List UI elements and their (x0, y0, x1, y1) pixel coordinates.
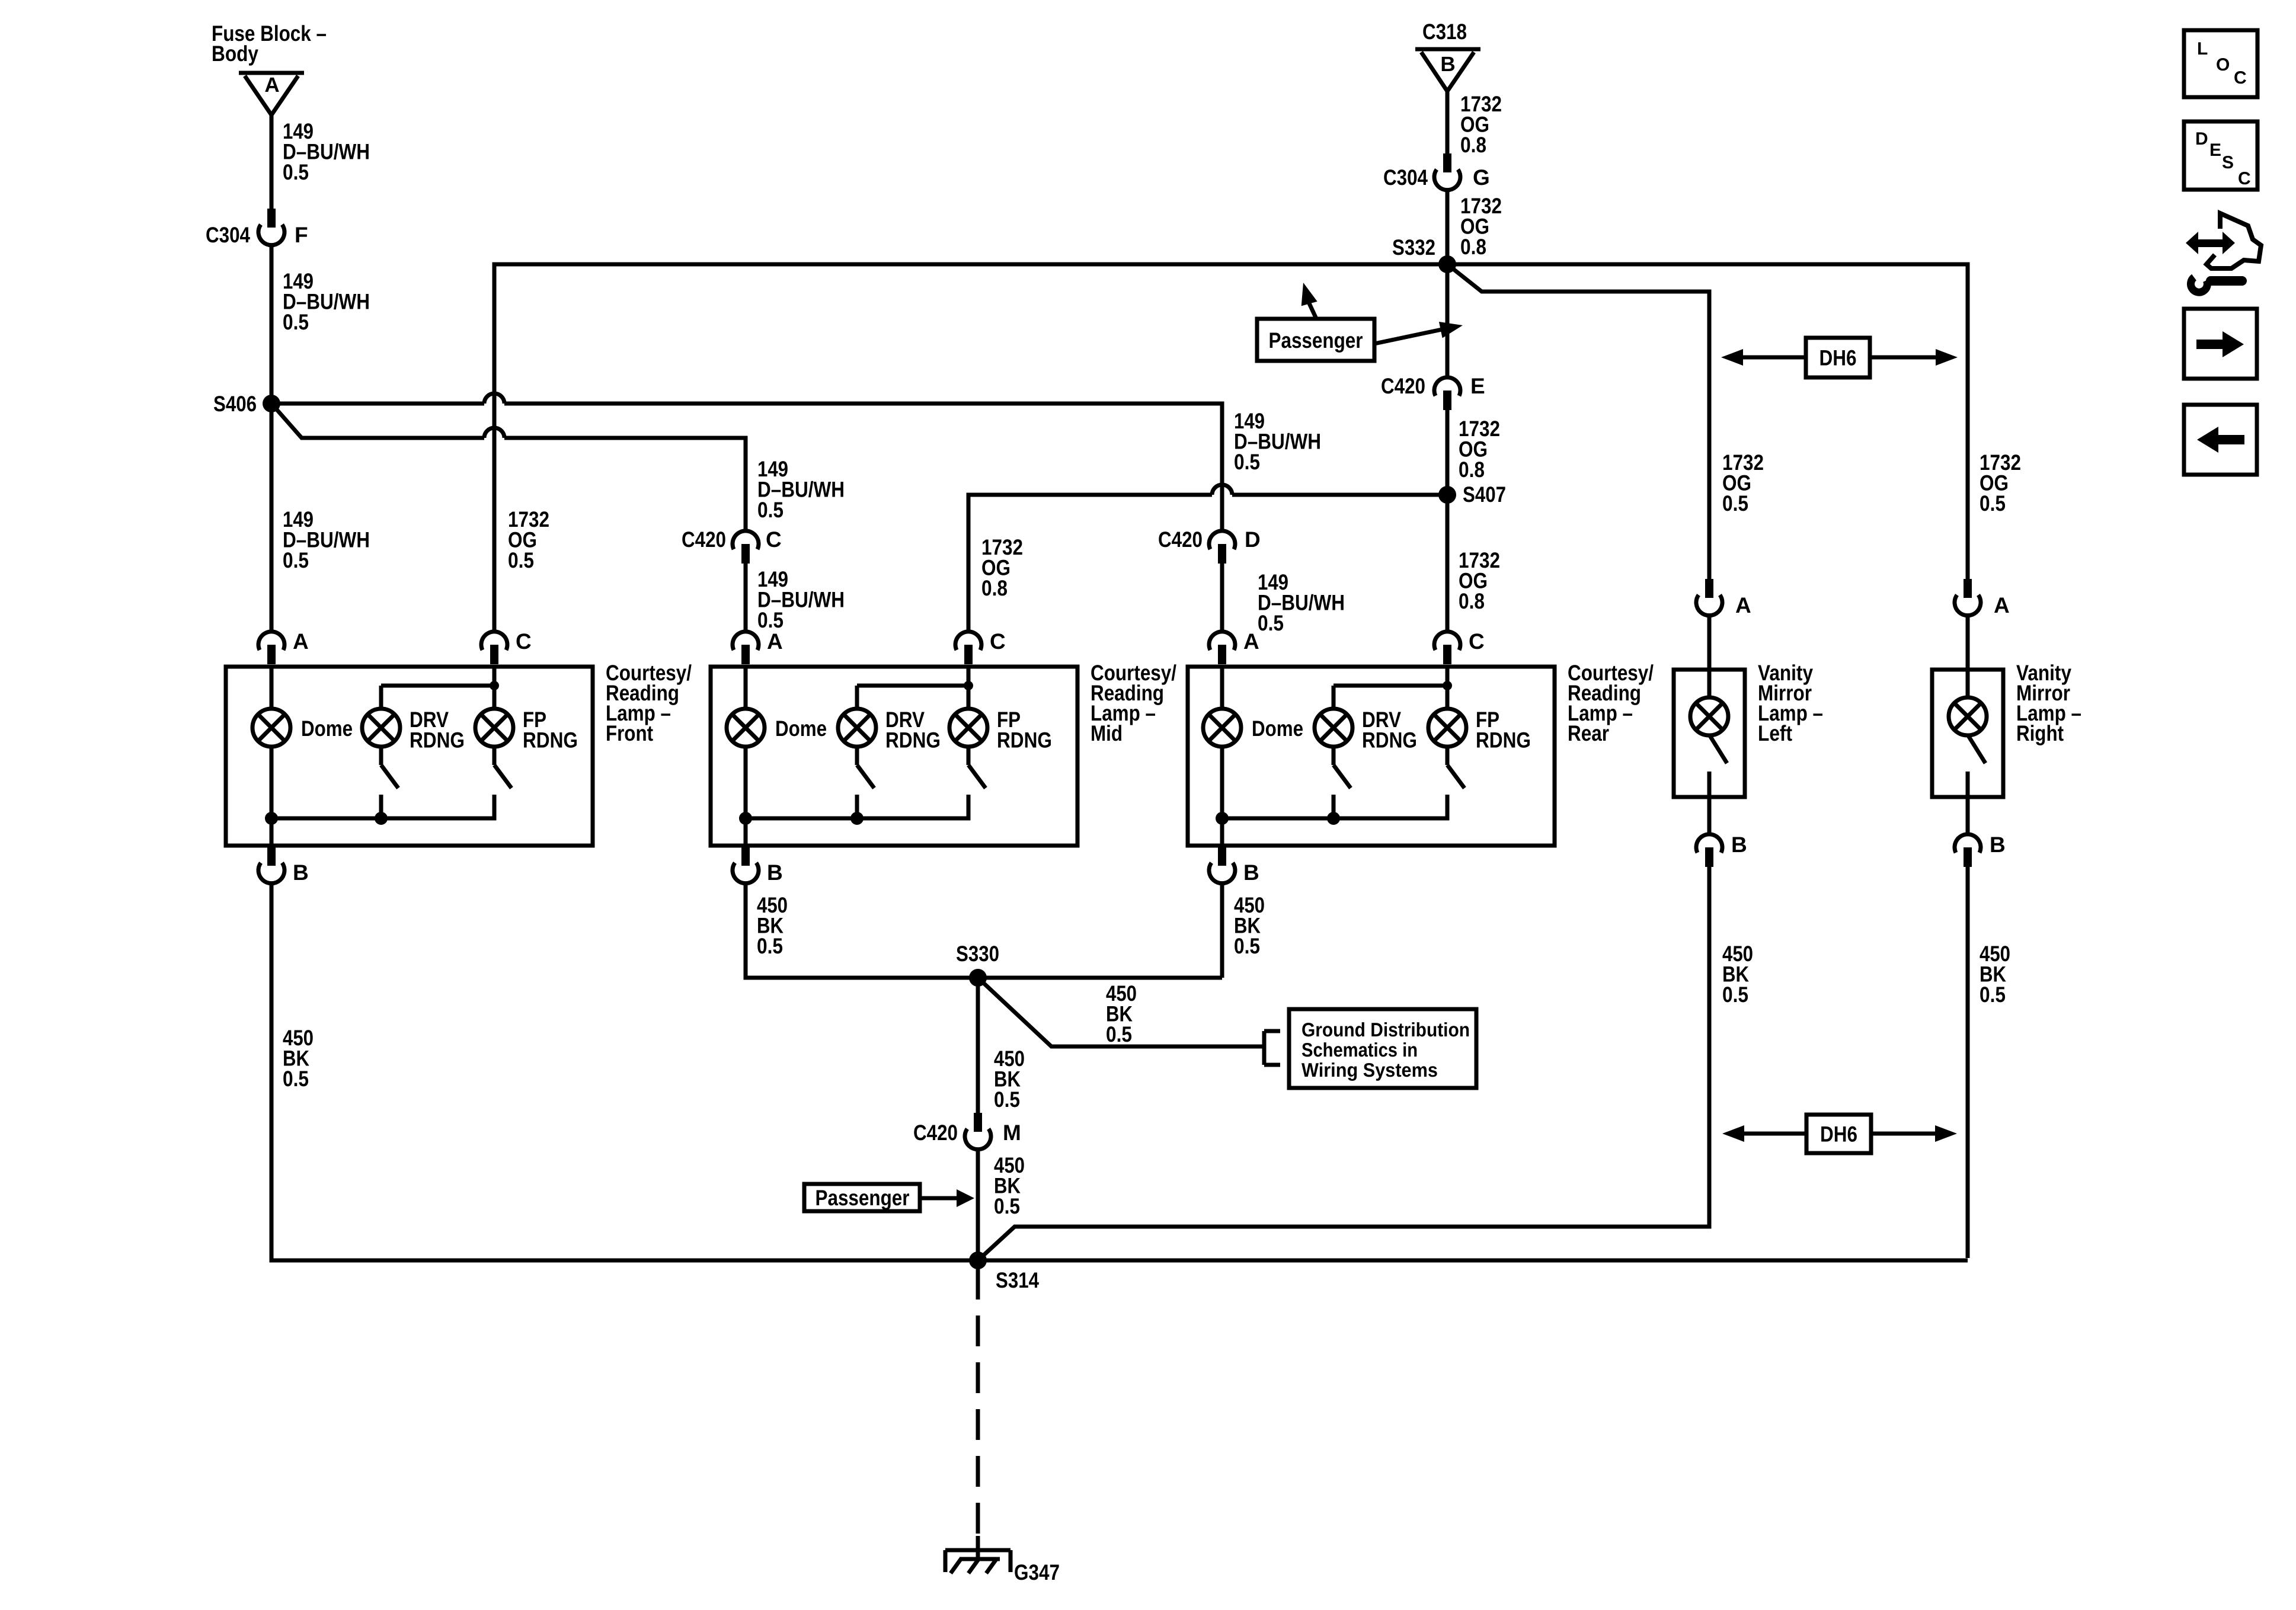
svg-text:E: E (1470, 374, 1485, 398)
svg-text:Body: Body (212, 41, 258, 66)
svg-text:0.5: 0.5 (1234, 934, 1260, 958)
svg-text:C420: C420 (682, 527, 726, 552)
svg-text:0.5: 0.5 (757, 608, 784, 632)
svg-text:Dome: Dome (775, 716, 827, 741)
svg-text:DH6: DH6 (1819, 346, 1857, 370)
svg-text:D: D (2195, 129, 2208, 149)
svg-text:C: C (1469, 629, 1485, 654)
svg-text:0.5: 0.5 (283, 310, 309, 334)
svg-text:Ground Distribution: Ground Distribution (1302, 1019, 1470, 1041)
svg-text:0.8: 0.8 (1459, 457, 1485, 482)
svg-text:C304: C304 (206, 223, 250, 247)
svg-text:G: G (1473, 165, 1490, 190)
svg-text:A: A (264, 73, 279, 97)
svg-text:S332: S332 (1392, 235, 1435, 260)
svg-text:G347: G347 (1014, 1560, 1060, 1585)
svg-text:Left: Left (1758, 721, 1792, 745)
svg-text:0.5: 0.5 (1722, 982, 1748, 1007)
svg-text:C: C (516, 629, 532, 654)
svg-text:C304: C304 (1383, 165, 1428, 190)
svg-text:0.8: 0.8 (1460, 133, 1486, 157)
svg-text:0.5: 0.5 (757, 934, 783, 958)
svg-text:C420: C420 (1158, 527, 1203, 552)
svg-text:S314: S314 (996, 1268, 1039, 1292)
svg-text:C: C (2238, 169, 2251, 188)
svg-text:L: L (2197, 39, 2208, 59)
svg-text:0.5: 0.5 (283, 160, 309, 184)
svg-text:C420: C420 (1381, 374, 1425, 398)
svg-text:B: B (1990, 833, 2006, 857)
svg-text:C420: C420 (913, 1121, 958, 1145)
svg-text:RDNG: RDNG (885, 728, 941, 753)
svg-text:0.5: 0.5 (283, 1067, 309, 1091)
svg-text:D: D (1245, 527, 1261, 552)
svg-text:0.8: 0.8 (981, 576, 1008, 600)
svg-text:Mid: Mid (1091, 721, 1123, 745)
svg-text:RDNG: RDNG (1476, 728, 1531, 753)
svg-text:A: A (293, 629, 309, 654)
svg-text:0.5: 0.5 (1258, 611, 1284, 635)
svg-text:RDNG: RDNG (1362, 728, 1417, 753)
svg-text:Dome: Dome (301, 716, 353, 741)
svg-text:0.5: 0.5 (1722, 491, 1748, 516)
svg-text:M: M (1003, 1121, 1021, 1145)
svg-text:0.8: 0.8 (1460, 235, 1486, 259)
svg-text:0.5: 0.5 (508, 548, 534, 572)
svg-text:0.5: 0.5 (994, 1194, 1020, 1218)
svg-text:DH6: DH6 (1820, 1122, 1857, 1147)
svg-text:Rear: Rear (1568, 721, 1609, 745)
svg-text:B: B (1731, 833, 1747, 857)
svg-text:0.5: 0.5 (283, 548, 309, 572)
svg-text:C: C (990, 629, 1006, 654)
svg-text:S330: S330 (956, 942, 999, 966)
svg-text:F: F (295, 223, 308, 247)
svg-text:0.8: 0.8 (1459, 589, 1485, 613)
svg-text:S406: S406 (213, 392, 257, 416)
svg-text:0.5: 0.5 (1106, 1022, 1132, 1046)
svg-text:S: S (2222, 153, 2234, 172)
svg-text:B: B (1440, 53, 1455, 76)
svg-text:B: B (1243, 860, 1259, 885)
svg-text:Dome: Dome (1252, 716, 1303, 741)
svg-text:RDNG: RDNG (410, 728, 465, 753)
svg-text:Front: Front (606, 721, 653, 745)
svg-text:A: A (1243, 629, 1259, 654)
svg-text:RDNG: RDNG (523, 728, 578, 753)
svg-text:S407: S407 (1463, 482, 1506, 507)
svg-text:Schematics in: Schematics in (1302, 1039, 1418, 1061)
svg-text:0.5: 0.5 (1980, 491, 2006, 516)
svg-text:B: B (767, 860, 783, 885)
svg-text:RDNG: RDNG (997, 728, 1052, 753)
svg-text:C: C (766, 527, 782, 552)
svg-text:Wiring Systems: Wiring Systems (1302, 1059, 1438, 1081)
svg-text:B: B (293, 860, 309, 885)
svg-text:A: A (1735, 593, 1751, 617)
svg-text:C318: C318 (1422, 20, 1467, 44)
svg-text:A: A (767, 629, 783, 654)
svg-text:Passenger: Passenger (816, 1186, 910, 1210)
svg-text:C: C (2234, 68, 2247, 88)
svg-text:0.5: 0.5 (757, 498, 784, 522)
svg-text:0.5: 0.5 (1234, 450, 1260, 474)
svg-text:Passenger: Passenger (1269, 328, 1363, 353)
svg-text:Right: Right (2016, 721, 2064, 745)
svg-text:A: A (1994, 593, 2010, 617)
svg-text:O: O (2216, 55, 2230, 75)
svg-text:0.5: 0.5 (1980, 982, 2006, 1007)
svg-text:0.5: 0.5 (994, 1087, 1020, 1112)
svg-text:E: E (2209, 140, 2221, 160)
